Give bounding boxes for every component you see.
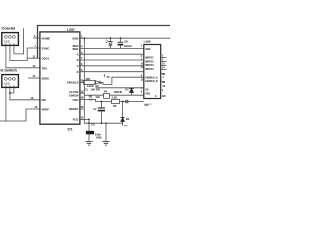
- svg-text:100uF: 100uF: [124, 44, 132, 48]
- enable resistor R1: [80, 81, 84, 83]
- diode arrow: [96, 81, 100, 84]
- svg-text:INPUT4: INPUT4: [145, 68, 154, 71]
- bottom gnd bus: [84, 122, 122, 124]
- svg-text:IC1: IC1: [68, 128, 73, 132]
- VS line with diode D1: [96, 87, 144, 89]
- wire R3 to L298: [120, 101, 144, 103]
- bus wire A: [80, 47, 144, 49]
- svg-text:1u: 1u: [93, 107, 96, 111]
- svg-text:RESET: RESET: [69, 107, 79, 111]
- svg-text:A: A: [77, 52, 79, 56]
- connector SW1 pin circles: [5, 78, 8, 81]
- ground G2 drop: [105, 123, 107, 141]
- wire to ENABLE_A: [100, 77, 144, 84]
- top supply rail: [38, 26, 171, 59]
- svg-text:C1: C1: [85, 88, 89, 92]
- resistor R3: [112, 99, 120, 103]
- svg-text:GN: GN: [162, 96, 166, 98]
- wire J1 pin3 to node: [14, 28, 24, 54]
- svg-text:INPUT1: INPUT1: [145, 58, 154, 60]
- svg-text:H/F: H/F: [42, 98, 47, 102]
- svg-text:TR2: TR2: [42, 66, 48, 70]
- svg-text:L298: L298: [144, 40, 151, 44]
- svg-text:5V: 5V: [107, 76, 110, 79]
- wire J1 pin2 to pin SYNC: [10, 45, 40, 60]
- C2 branch: [101, 101, 103, 103]
- connector SW1: [2, 75, 19, 88]
- IC U1 L297: [40, 32, 80, 124]
- wire SW1 pin2 to H/F pin: [10, 87, 40, 99]
- VCC pin wire: [80, 118, 89, 120]
- wire SW1 pin3 join: [10, 87, 14, 93]
- svg-text:VSS: VSS: [145, 93, 150, 95]
- VSS line: [84, 94, 144, 96]
- ground G1: [86, 142, 93, 146]
- wire OSC pin stub: [27, 57, 40, 59]
- diode D2: [122, 102, 124, 118]
- svg-text:VCC: VCC: [73, 118, 79, 122]
- vertical rail from GND pin: [83, 38, 85, 123]
- svg-text:Coaxial: Coaxial: [2, 26, 16, 30]
- svg-text:C5: C5: [124, 40, 128, 44]
- svg-text:HOME: HOME: [42, 36, 51, 40]
- capacitor C4: [88, 119, 90, 130]
- svg-text:GND: GND: [145, 49, 150, 51]
- junction: [9, 92, 11, 94]
- svg-text:3.3nF: 3.3nF: [87, 84, 94, 88]
- svg-text:SE: SE: [162, 82, 166, 84]
- svg-text:D: D: [77, 70, 79, 74]
- bus wire GND: [80, 37, 170, 39]
- pin stub SEN2: [28, 77, 40, 79]
- svg-text:OSC1: OSC1: [42, 56, 50, 60]
- resistor R4: [104, 93, 110, 98]
- svg-text:VS: VS: [145, 90, 149, 92]
- U1 left pin stubs + numbers: [33, 37, 40, 39]
- bus wire D: [80, 65, 144, 67]
- svg-text:10n: 10n: [96, 95, 101, 99]
- svg-text:ENABLE: ENABLE: [67, 81, 79, 85]
- connector J1 pin circles: [5, 36, 8, 39]
- U2 right pin stubs: [161, 58, 167, 70]
- svg-text:CLOCK: CLOCK: [69, 90, 78, 94]
- svg-text:INH1: INH1: [73, 47, 79, 51]
- zener D3: [110, 37, 112, 39]
- svg-text:VREF: VREF: [42, 107, 50, 111]
- capacitor C5: [120, 37, 122, 39]
- svg-text:ENABLE_B: ENABLE_B: [145, 80, 158, 83]
- diode D1: [129, 87, 133, 89]
- osc pin wire to R3 line: [80, 99, 112, 101]
- svg-text:nt Switch: nt Switch: [0, 68, 17, 72]
- IC U2 L298: [144, 45, 161, 99]
- svg-text:OSC: OSC: [72, 98, 78, 102]
- wire J1 pin1 to pin: [6, 45, 40, 67]
- bus wire B: [80, 53, 144, 55]
- clock stub: [80, 92, 84, 94]
- svg-text:1N4148: 1N4148: [114, 91, 123, 94]
- svg-text:GND: GND: [96, 137, 102, 140]
- svg-text:INPUT3: INPUT3: [145, 65, 154, 67]
- svg-text:ENABLE_A: ENABLE_A: [145, 76, 158, 79]
- reset stub: [80, 108, 84, 110]
- svg-text:GND: GND: [72, 36, 78, 40]
- svg-text:SE: SE: [162, 74, 166, 76]
- svg-text:C: C: [77, 64, 79, 68]
- svg-text:CW/CW: CW/CW: [69, 94, 79, 98]
- svg-text:SEN2: SEN2: [42, 76, 50, 80]
- svg-text:1 2 3: 1 2 3: [4, 83, 10, 86]
- connector J1: [2, 33, 19, 46]
- svg-text:SYNC: SYNC: [42, 46, 50, 50]
- bus wire INH: [80, 71, 144, 73]
- svg-text:22K: 22K: [86, 77, 91, 81]
- svg-text:B: B: [77, 58, 79, 62]
- bus wire C: [80, 59, 144, 61]
- svg-text:2.2K: 2.2K: [112, 96, 118, 100]
- svg-text:INPUT2: INPUT2: [145, 61, 154, 63]
- terminal circle: [125, 100, 128, 103]
- svg-text:1 2 3: 1 2 3: [4, 41, 10, 44]
- svg-text:R3: R3: [113, 104, 117, 108]
- wire SW1 pin1 to VREF line: [0, 87, 40, 121]
